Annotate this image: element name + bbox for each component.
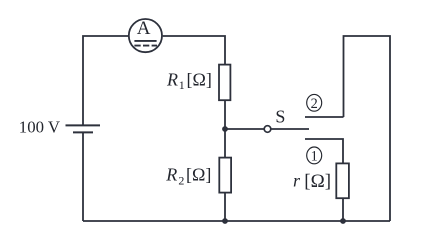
label R1 [ohm] — [166, 69, 212, 92]
svg-text:[Ω]: [Ω] — [304, 171, 331, 192]
wire contact 1 stub to r top — [305, 139, 343, 163]
wire battery bottom to bottom-left corner — [82, 132, 84, 221]
svg-text:S: S — [275, 107, 285, 127]
battery 100V — [66, 125, 101, 132]
wire bottom rail — [83, 220, 390, 222]
wire left+top (battery top to ammeter) — [83, 36, 128, 125]
ammeter A — [129, 18, 162, 52]
label contact 2 circled — [307, 94, 322, 111]
wire junction to R2 top — [224, 129, 226, 158]
svg-text:A: A — [137, 18, 151, 39]
wire contact 2 stub — [305, 116, 344, 118]
svg-text:100 V: 100 V — [19, 117, 60, 136]
node R2 bottom rail — [222, 218, 228, 224]
svg-text:1: 1 — [311, 148, 318, 164]
svg-text:1: 1 — [179, 78, 185, 92]
svg-text:R: R — [165, 165, 177, 185]
resistor R2 — [219, 158, 231, 193]
wire contact 2 branch up and right side — [344, 36, 391, 221]
label contact 1 circled — [307, 147, 322, 164]
resistor r — [336, 163, 349, 198]
wire R2 bottom to bottom rail — [224, 193, 226, 221]
label r [ohm] — [293, 171, 331, 192]
svg-text:2: 2 — [311, 96, 318, 112]
svg-text:[Ω]: [Ω] — [187, 69, 212, 89]
wire r bottom to bottom rail — [342, 198, 344, 221]
wire junction to switch pivot — [225, 128, 264, 130]
svg-text:r: r — [293, 171, 301, 191]
svg-text:2: 2 — [178, 173, 184, 187]
svg-text:[Ω]: [Ω] — [186, 165, 211, 185]
svg-text:R: R — [166, 69, 178, 89]
switch S pivot — [264, 126, 271, 133]
wire R1 bottom to junction — [224, 100, 226, 129]
wire switch arm — [271, 128, 309, 130]
label R2 [ohm] — [165, 165, 211, 188]
node r bottom rail — [340, 218, 346, 224]
resistor R1 — [219, 65, 230, 101]
node junction at R1/R2/switch — [222, 126, 228, 132]
wire ammeter to R1 top — [163, 36, 225, 65]
